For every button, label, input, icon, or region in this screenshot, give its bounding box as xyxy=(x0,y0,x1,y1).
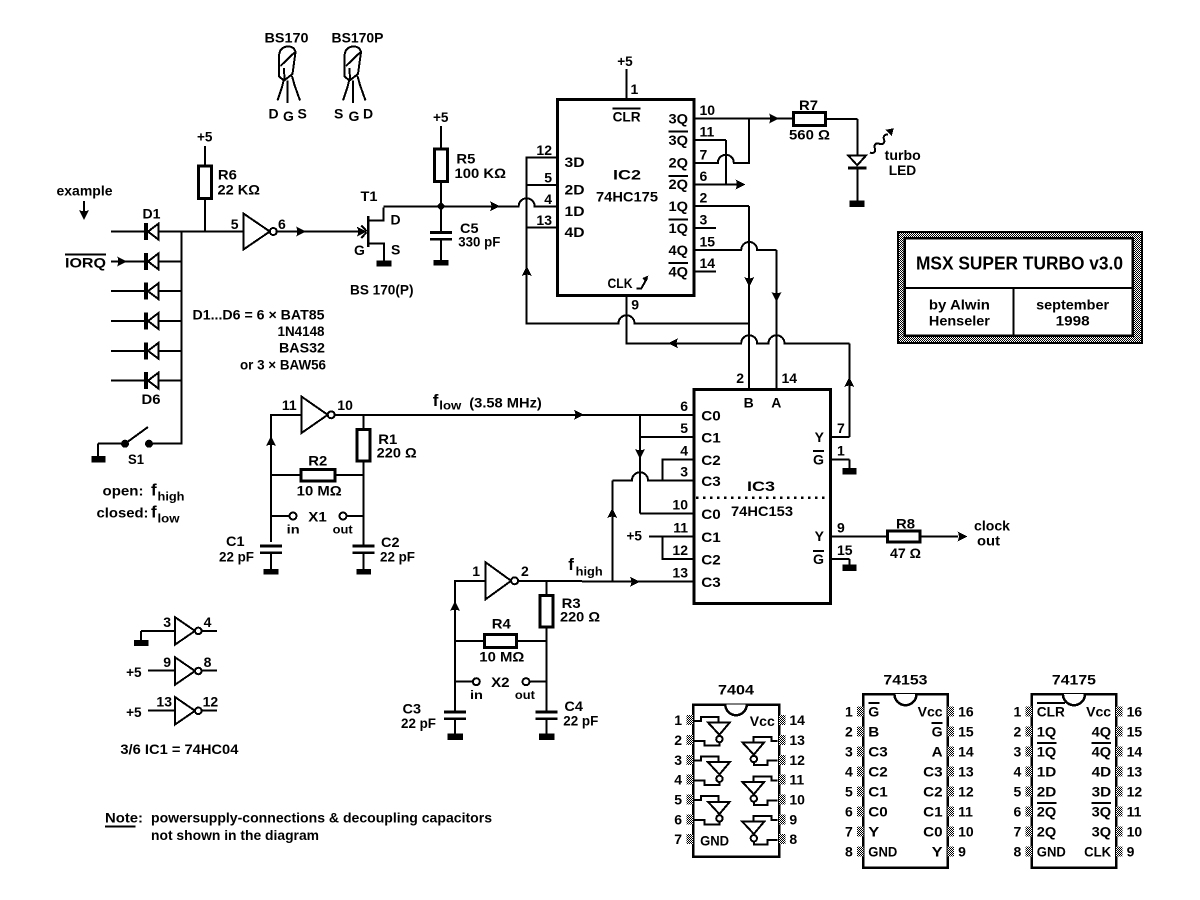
svg-text:13: 13 xyxy=(536,212,552,228)
label C5 330 pF xyxy=(458,220,500,250)
svg-text:10 MΩ: 10 MΩ xyxy=(479,649,524,665)
pinout label D G S xyxy=(269,106,307,125)
title box inner xyxy=(905,238,1133,336)
svg-text:(3.58 MHz): (3.58 MHz) xyxy=(469,395,542,411)
svg-text:22 pF: 22 pF xyxy=(219,549,254,565)
svg-text:9: 9 xyxy=(837,519,845,535)
LED light arrow squiggle xyxy=(870,128,894,153)
svg-text:B: B xyxy=(744,395,754,411)
svg-text:3: 3 xyxy=(680,463,688,479)
svg-text:14: 14 xyxy=(700,255,716,271)
wire feedback vertical to 3D/2D/4D xyxy=(522,156,532,324)
svg-text:2: 2 xyxy=(1014,723,1022,739)
74175 pin numbers xyxy=(1014,703,1143,859)
diode D2 xyxy=(111,253,182,270)
svg-text:4D: 4D xyxy=(1092,763,1112,779)
svg-text:S: S xyxy=(298,106,307,122)
label A select xyxy=(771,395,781,411)
74175 pin stubs xyxy=(1025,706,1122,856)
svg-text:47 Ω: 47 Ω xyxy=(890,545,921,561)
svg-text:13: 13 xyxy=(672,565,688,581)
power +5 (R5) xyxy=(433,109,449,125)
ground at C2 xyxy=(356,569,371,575)
svg-text:5: 5 xyxy=(544,170,552,186)
ground at LED xyxy=(850,201,865,208)
svg-text:G: G xyxy=(813,551,824,567)
label R3 220 Ω xyxy=(560,595,600,625)
label BS170P xyxy=(332,30,384,46)
wire feedback bottom (1Q to data inputs) xyxy=(527,315,750,323)
svg-text:1: 1 xyxy=(1014,703,1022,719)
label IC3 xyxy=(747,478,775,494)
svg-text:1: 1 xyxy=(845,703,853,719)
svg-text:14: 14 xyxy=(782,370,798,386)
svg-text:R7: R7 xyxy=(799,97,818,113)
resistor R5 xyxy=(435,126,448,206)
svg-text:Y: Y xyxy=(815,528,825,544)
pin number 9 (IC2) xyxy=(631,297,639,313)
svg-text:IORQ: IORQ xyxy=(65,255,106,271)
svg-text:or 3 × BAW56: or 3 × BAW56 xyxy=(240,357,326,373)
label 74HC175 xyxy=(596,189,658,205)
svg-text:out: out xyxy=(515,688,535,702)
svg-text:1: 1 xyxy=(837,443,845,459)
svg-text:8: 8 xyxy=(1014,844,1022,860)
inverter gate IC1c (1->2) xyxy=(486,562,518,599)
label R2 10 MΩ xyxy=(297,453,342,499)
svg-text:12: 12 xyxy=(203,694,219,710)
svg-text:Henseler: Henseler xyxy=(929,313,991,329)
svg-text:5: 5 xyxy=(1014,783,1022,799)
svg-text:3Q: 3Q xyxy=(1092,823,1112,839)
svg-text:7: 7 xyxy=(845,823,853,839)
svg-text:2: 2 xyxy=(674,732,682,748)
svg-text:S: S xyxy=(391,242,400,258)
ground at G1 xyxy=(843,468,857,475)
ground at C4 xyxy=(539,733,555,740)
label S (source) xyxy=(391,242,400,258)
wire G1 to ground xyxy=(831,460,850,469)
pin 7 label 2Q (IC2) xyxy=(669,146,708,170)
svg-text:low: low xyxy=(158,512,181,526)
resistor R1 xyxy=(357,415,370,475)
power +5 (IC2 pin1) xyxy=(617,53,633,69)
wire C2/C3 tie bracket xyxy=(662,459,694,482)
svg-text:BS 170(P): BS 170(P) xyxy=(350,282,414,298)
label clock out xyxy=(974,518,1010,549)
IC3 box 74HC153 xyxy=(694,389,831,603)
pin 11 label C1 (IC3) xyxy=(673,519,721,545)
svg-text:12: 12 xyxy=(1127,783,1143,799)
svg-text:+5: +5 xyxy=(617,53,633,69)
pin 12 label C2 (IC3) xyxy=(672,542,721,568)
pin number 11 xyxy=(282,397,297,413)
power +5 (IC1e) xyxy=(126,664,142,680)
svg-text:3D: 3D xyxy=(565,154,585,170)
label R4 10 MΩ xyxy=(479,615,524,664)
wire R7 to LED xyxy=(826,119,858,156)
pin number 8 (IC1e) xyxy=(204,654,212,670)
pin number 10 xyxy=(337,397,353,413)
label 560 Ω xyxy=(789,127,830,143)
svg-text:2Q: 2Q xyxy=(669,155,689,171)
svg-text:6: 6 xyxy=(845,803,853,819)
svg-text:74153: 74153 xyxy=(883,672,927,688)
capacitor C4 xyxy=(536,682,558,734)
svg-text:S1: S1 xyxy=(128,451,144,467)
svg-text:3Q: 3Q xyxy=(669,132,689,148)
label G (gate) xyxy=(354,242,365,258)
wire 2D stub xyxy=(527,184,558,186)
svg-text:+5: +5 xyxy=(197,129,213,145)
svg-text:+5: +5 xyxy=(126,704,142,720)
LED turbo indicator diode xyxy=(848,156,866,201)
svg-text:S: S xyxy=(334,106,343,122)
svg-text:3Q: 3Q xyxy=(669,110,689,126)
7404 gate 13-12 xyxy=(742,737,777,765)
svg-text:turbo: turbo xyxy=(885,147,921,163)
diode D3 xyxy=(111,283,182,300)
svg-text:9: 9 xyxy=(958,844,966,860)
capacitor C1 xyxy=(260,545,282,570)
wire inverter 6 to T1 gate xyxy=(276,225,366,238)
svg-text:2D: 2D xyxy=(565,182,585,198)
wire C1/C2 tie bracket xyxy=(662,536,694,560)
pin number 9 (IC1e) xyxy=(163,654,171,670)
svg-text:C3: C3 xyxy=(923,763,943,779)
label Vcc (7404) xyxy=(750,713,775,729)
label D (drain) xyxy=(391,212,401,228)
svg-text:10: 10 xyxy=(789,791,805,807)
svg-text:C2: C2 xyxy=(701,452,721,468)
svg-text:330 pF: 330 pF xyxy=(458,234,500,250)
svg-text:16: 16 xyxy=(1127,703,1143,719)
label open: f high xyxy=(103,481,185,504)
signal label IORQ (active low) xyxy=(65,254,106,270)
svg-text:in: in xyxy=(470,688,483,702)
pin number 12 (IC1f) xyxy=(203,694,219,710)
svg-text:22 pF: 22 pF xyxy=(563,713,598,729)
svg-text:C3: C3 xyxy=(868,743,888,759)
pinout label S G D xyxy=(334,106,373,125)
svg-text:12: 12 xyxy=(536,142,552,158)
pin number 3 (IC1d) xyxy=(163,614,171,630)
svg-text:C2: C2 xyxy=(923,783,943,799)
svg-text:D: D xyxy=(391,212,401,228)
svg-text:11: 11 xyxy=(673,519,688,535)
svg-text:13: 13 xyxy=(789,732,805,748)
svg-text:13: 13 xyxy=(156,694,172,710)
svg-text:T1: T1 xyxy=(361,188,378,204)
svg-text:9: 9 xyxy=(631,297,639,313)
wire 3Q junction down to 2Q xyxy=(748,119,750,164)
pin 12 label 3D (IC2) xyxy=(536,142,584,170)
label BS 170(P) xyxy=(350,282,414,298)
svg-text:D: D xyxy=(363,106,373,122)
crystal X2 terminals xyxy=(455,678,547,685)
pin 7 label Y (IC3) xyxy=(815,420,845,445)
ground at T1 source xyxy=(377,260,392,266)
svg-text:100 KΩ: 100 KΩ xyxy=(455,165,507,181)
switch S1 xyxy=(98,427,182,448)
svg-text:high: high xyxy=(576,565,603,579)
svg-text:16: 16 xyxy=(958,703,974,719)
svg-text:by Alwin: by Alwin xyxy=(929,297,990,313)
wire 4Q to mux A xyxy=(694,242,781,389)
IC pinout 7404 body xyxy=(693,682,779,857)
7404 gate 1-2 xyxy=(694,717,729,745)
svg-text:C1: C1 xyxy=(923,803,943,819)
svg-text:low: low xyxy=(439,399,462,413)
svg-text:13: 13 xyxy=(1127,763,1143,779)
svg-text:C0: C0 xyxy=(701,407,721,423)
svg-text:14: 14 xyxy=(1127,743,1143,759)
svg-text:12: 12 xyxy=(958,783,974,799)
inverter gate IC1a xyxy=(243,213,276,249)
pin 5 label 2D (IC2) xyxy=(544,170,584,198)
svg-text:powersupply-connections & deco: powersupply-connections & decoupling cap… xyxy=(151,810,492,826)
svg-text:4: 4 xyxy=(674,772,682,788)
svg-text:4Q: 4Q xyxy=(1092,743,1112,759)
label 3/6 IC1 = 74HC04 xyxy=(120,741,238,757)
inverter gate IC1d (3->4) xyxy=(141,617,217,644)
svg-text:4Q: 4Q xyxy=(1092,723,1112,739)
svg-text:4: 4 xyxy=(204,614,212,630)
capacitor C5 xyxy=(430,206,452,260)
wire 1Q-bar stub xyxy=(694,227,716,229)
svg-text:Y: Y xyxy=(932,844,944,860)
svg-text:B: B xyxy=(868,723,879,739)
svg-text:15: 15 xyxy=(837,542,853,558)
svg-text:5: 5 xyxy=(674,791,682,807)
svg-text:BS170P: BS170P xyxy=(332,30,384,46)
svg-text:7: 7 xyxy=(1014,823,1022,839)
svg-text:74HC153: 74HC153 xyxy=(731,503,793,519)
svg-text:3: 3 xyxy=(700,212,708,228)
svg-text:9: 9 xyxy=(789,811,797,827)
svg-text:G: G xyxy=(868,703,879,719)
pin number 2 (IC1c) xyxy=(521,563,529,579)
svg-text:IC2: IC2 xyxy=(613,166,641,182)
svg-text:22 pF: 22 pF xyxy=(380,549,415,565)
label CLK with edge symbol xyxy=(608,275,649,291)
wire CLK pin9 drop xyxy=(626,295,628,344)
wire +5 to pin 1 xyxy=(626,69,628,99)
label 47 Ω xyxy=(890,545,921,561)
title divider lines xyxy=(905,288,1133,336)
svg-text:C0: C0 xyxy=(923,823,943,839)
7404 gate 5-6 xyxy=(694,796,729,824)
pin 13 label 4D (IC2) xyxy=(536,212,584,240)
svg-text:12: 12 xyxy=(789,752,805,768)
svg-text:1Q: 1Q xyxy=(669,220,689,236)
pin number 1 (IC2) xyxy=(631,81,639,97)
resistor R8 xyxy=(888,531,921,542)
svg-text:Vcc: Vcc xyxy=(750,713,775,729)
svg-text:G: G xyxy=(349,108,360,124)
diode D4 xyxy=(111,313,182,330)
svg-text:9: 9 xyxy=(163,654,171,670)
wire 2Q-bar example arrow xyxy=(694,179,745,189)
svg-text:X2: X2 xyxy=(491,674,510,690)
svg-text:A: A xyxy=(932,743,943,759)
svg-text:f: f xyxy=(568,555,574,574)
label out (X2) xyxy=(515,688,535,702)
svg-text:clock: clock xyxy=(974,518,1010,534)
label R8 xyxy=(896,516,915,532)
transistor package BS170P (TO-92 outline) xyxy=(343,46,366,103)
74175 left pin labels xyxy=(1037,703,1066,859)
svg-text:C0: C0 xyxy=(868,803,888,819)
pin 14 number (IC3 A) xyxy=(782,370,798,386)
svg-text:2D: 2D xyxy=(1037,783,1057,799)
svg-text:6: 6 xyxy=(680,398,688,414)
svg-text:7404: 7404 xyxy=(718,682,754,698)
svg-text:BAS32: BAS32 xyxy=(279,340,325,356)
svg-text:3: 3 xyxy=(1014,743,1022,759)
svg-text:D1...D6 = 6 × BAT85: D1...D6 = 6 × BAT85 xyxy=(193,307,325,323)
svg-text:13: 13 xyxy=(958,763,974,779)
svg-text:C3: C3 xyxy=(701,574,721,590)
IC pinout 74153 body xyxy=(863,672,947,868)
label C1 22 pF xyxy=(219,533,254,565)
svg-text:220 Ω: 220 Ω xyxy=(560,609,600,625)
svg-text:4: 4 xyxy=(544,191,552,207)
inverter gate IC1f (13->12) xyxy=(148,697,217,724)
ground at C3 xyxy=(447,733,463,740)
svg-text:out: out xyxy=(333,523,353,537)
svg-text:+5: +5 xyxy=(627,528,643,544)
power +5 (IC1f) xyxy=(126,704,142,720)
svg-text:+5: +5 xyxy=(433,109,449,125)
svg-text:september: september xyxy=(1036,297,1110,313)
wire 1Q to mux B xyxy=(694,206,754,389)
label S1 xyxy=(128,451,144,467)
svg-text:4: 4 xyxy=(680,443,688,459)
pin 11 label 3Q (IC2) xyxy=(669,124,715,148)
label R6 22 KΩ xyxy=(218,167,261,198)
svg-text:5: 5 xyxy=(680,420,688,436)
label R7 xyxy=(799,97,818,113)
ground at IC1d input xyxy=(134,631,149,646)
svg-text:R2: R2 xyxy=(308,453,327,469)
svg-text:10: 10 xyxy=(672,497,688,513)
wire R2 row to X1 xyxy=(362,475,364,516)
label C3 22 pF xyxy=(401,701,436,732)
svg-text:example: example xyxy=(57,183,113,199)
pin 4 label 1D (IC2) xyxy=(544,191,584,219)
svg-text:C1: C1 xyxy=(226,533,245,549)
wire R8 to clock out xyxy=(920,531,968,541)
label CLR (active low) xyxy=(613,108,641,124)
svg-text:6: 6 xyxy=(674,811,682,827)
capacitor C3 xyxy=(444,711,466,734)
wire X2 feedback left xyxy=(450,580,486,711)
pin 15 label 4Q (IC2) xyxy=(669,234,716,258)
pin number 6 xyxy=(278,216,286,232)
svg-text:C3: C3 xyxy=(701,473,721,489)
wire diode bus vertical xyxy=(181,231,183,445)
label in (X1) xyxy=(287,523,300,537)
svg-text:LED: LED xyxy=(889,162,917,178)
svg-text:9: 9 xyxy=(1127,844,1135,860)
ground at S1 xyxy=(91,444,105,463)
svg-text:G: G xyxy=(932,723,943,739)
ground at C5 xyxy=(434,260,449,266)
svg-text:Y: Y xyxy=(815,429,825,445)
label B select xyxy=(744,395,754,411)
pin number 1 (IC1c) xyxy=(472,563,480,579)
svg-text:4: 4 xyxy=(1014,763,1022,779)
svg-text:1998: 1998 xyxy=(1056,313,1090,329)
credit september 1998 xyxy=(1036,297,1110,329)
pin 6 label C0 (IC3) xyxy=(680,398,721,424)
wire 3Q to R7 xyxy=(694,114,794,124)
svg-text:1Q: 1Q xyxy=(1037,743,1057,759)
wire CLK return line xyxy=(627,335,850,348)
label C4 22 pF xyxy=(563,698,598,729)
pin 10 label 3Q (IC2) xyxy=(669,102,716,126)
svg-text:IC3: IC3 xyxy=(747,478,775,494)
diode D5 xyxy=(111,342,182,359)
capacitor C2 xyxy=(353,516,375,569)
pin number 13 (IC1f) xyxy=(156,694,172,710)
svg-text:1D: 1D xyxy=(1037,763,1057,779)
7404 gate 11-10 xyxy=(742,776,777,804)
wire row1 to inverter IC1a input xyxy=(182,231,244,233)
svg-text:1: 1 xyxy=(472,563,480,579)
svg-text:7: 7 xyxy=(700,146,708,162)
74153 pin stubs xyxy=(857,706,954,856)
label out (X1) xyxy=(333,523,353,537)
svg-text:6: 6 xyxy=(278,216,286,232)
svg-text:2Q: 2Q xyxy=(669,176,689,192)
74153 left pin labels xyxy=(868,703,897,859)
svg-text:D1: D1 xyxy=(143,206,161,222)
label f high xyxy=(568,555,602,579)
svg-text:G: G xyxy=(283,108,294,124)
svg-text:closed:: closed: xyxy=(97,505,149,521)
resistor R7 xyxy=(794,112,826,125)
svg-text:f: f xyxy=(151,481,157,500)
label X2 xyxy=(491,674,510,690)
label BS170 xyxy=(265,30,309,46)
label GND (7404) xyxy=(700,832,729,848)
wire G15 to ground xyxy=(831,559,850,564)
svg-text:220 Ω: 220 Ω xyxy=(377,445,417,461)
crystal X1 terminals xyxy=(271,513,363,520)
wire f_high to C2/C3 xyxy=(607,472,694,581)
74153 right pin labels xyxy=(918,703,944,859)
pin number 5 xyxy=(231,216,239,232)
svg-text:open:: open: xyxy=(103,483,144,499)
node junction dot (R5/C5) xyxy=(436,202,445,211)
svg-text:2: 2 xyxy=(521,563,529,579)
IC2 box 74HC175 xyxy=(558,99,695,295)
svg-text:2: 2 xyxy=(845,723,853,739)
svg-text:+5: +5 xyxy=(126,664,142,680)
pin 10 label C0 (IC3) xyxy=(672,497,721,523)
pin 5 label C1 (IC3) xyxy=(680,420,721,446)
svg-text:11: 11 xyxy=(282,397,297,413)
svg-text:X1: X1 xyxy=(308,509,327,525)
label T1 xyxy=(361,188,378,204)
svg-text:5: 5 xyxy=(231,216,239,232)
svg-text:3Q: 3Q xyxy=(1092,803,1112,819)
svg-text:8: 8 xyxy=(789,831,797,847)
svg-text:GND: GND xyxy=(700,832,729,848)
svg-text:Note:: Note: xyxy=(105,810,143,826)
